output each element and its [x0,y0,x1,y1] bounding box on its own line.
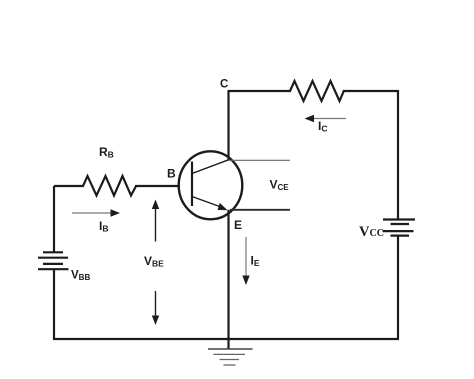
transistor Q1 emitter diagonal with arrowhead [192,197,221,208]
wire: right rail upper segment [397,90,399,220]
current arrow IC [305,115,347,122]
wire: base wire from resistor RB to transistor base [135,185,180,187]
VCE reference line top (collector side) [229,159,291,161]
wire: left rail lower segment [53,269,55,339]
wire: top rail from node C to resistor RC [228,90,292,92]
svg-text:RB: RB [99,145,114,160]
VCE reference line bottom (emitter side) [230,209,290,211]
svg-text:VCE: VCE [270,178,290,193]
wire: top rail from resistor RC to right rail [343,90,398,92]
wire: base wire from left rail to resistor RB [54,185,84,187]
svg-text:IB: IB [99,219,108,234]
current arrow IE [242,237,249,285]
wire: emitter wire down to bottom rail [227,210,229,339]
svg-text:B: B [167,167,176,181]
svg-text:VBE: VBE [144,254,164,269]
svg-text:E: E [234,218,242,232]
transistor Q1 base bar [191,162,193,207]
battery VCC [383,220,416,236]
battery VBB [38,252,69,269]
transistor Q1 collector diagonal [192,160,229,174]
wire: collector wire from node C down into transistor [227,91,229,160]
ground [208,349,253,365]
svg-text:IC: IC [318,119,327,134]
svg-text:VCC: VCC [359,224,384,240]
svg-text:C: C [220,79,228,91]
wire: ground stub below bottom rail [227,339,229,349]
transistor Q1 body circle [179,151,243,219]
wire: bottom rail [53,338,399,340]
wire: right rail lower segment [397,236,399,339]
resistor RC [290,81,344,101]
current arrow IB [72,209,120,216]
wire: left rail upper segment [53,186,55,253]
svg-text:VBB: VBB [71,270,90,283]
svg-text:IE: IE [251,254,260,269]
resistor RB [83,176,136,196]
voltage arrow VBE upward [152,200,159,242]
voltage arrow VBE downward [152,291,159,325]
